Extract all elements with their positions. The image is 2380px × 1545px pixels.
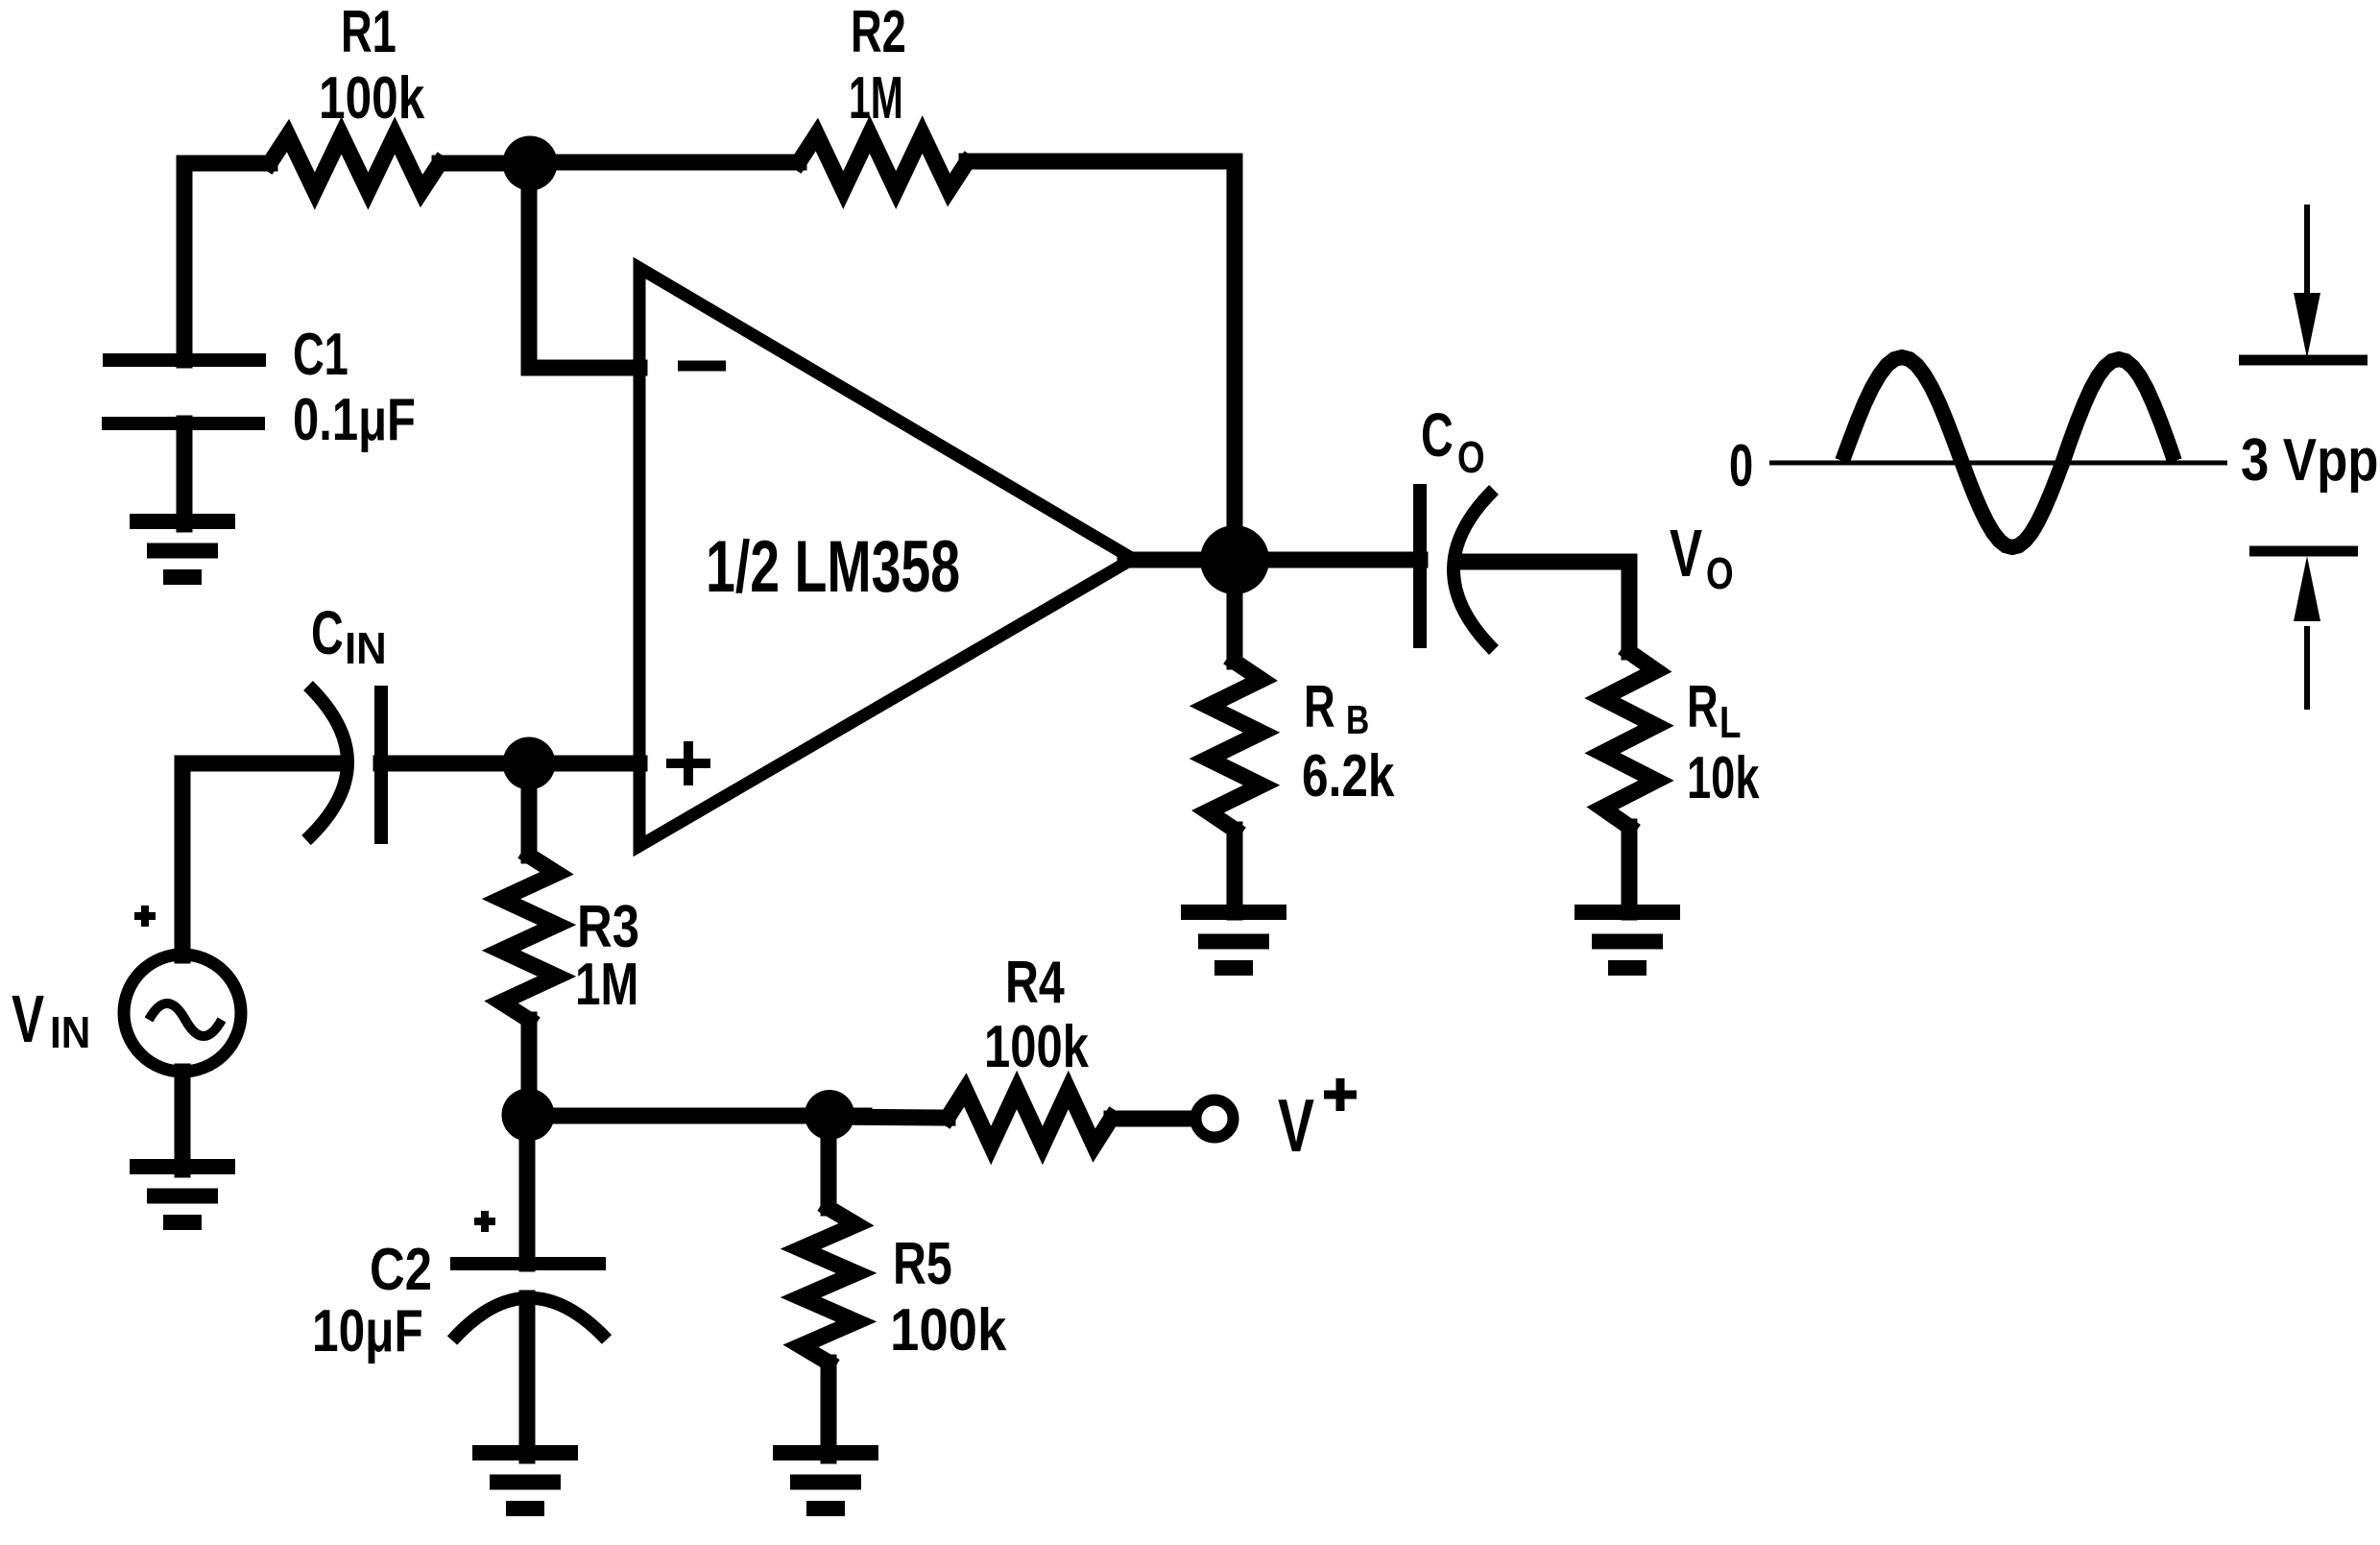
svg-text:V: V: [1278, 1084, 1314, 1168]
svg-text:0: 0: [1729, 432, 1753, 499]
svg-text:100k: 100k: [890, 1297, 1007, 1364]
svg-text:C2: C2: [370, 1237, 432, 1303]
svg-text:IN: IN: [50, 1008, 90, 1057]
svg-text:R1: R1: [341, 0, 397, 65]
svg-text:1M: 1M: [849, 65, 903, 133]
svg-text:L: L: [1719, 697, 1741, 747]
svg-text:R4: R4: [1005, 949, 1065, 1015]
svg-text:10k: 10k: [1687, 744, 1760, 811]
svg-text:R2: R2: [851, 0, 906, 65]
svg-text:R: R: [1687, 673, 1719, 740]
svg-text:C1: C1: [293, 321, 349, 388]
svg-text:3 Vpp: 3 Vpp: [2241, 427, 2378, 494]
svg-text:1/2 LM358: 1/2 LM358: [706, 527, 960, 609]
svg-text:100k: 100k: [319, 64, 425, 132]
svg-text:R: R: [1304, 673, 1335, 740]
svg-text:10μF: 10μF: [312, 1297, 423, 1364]
svg-text:O: O: [1706, 548, 1734, 598]
svg-text:V: V: [12, 981, 44, 1056]
svg-text:100k: 100k: [984, 1012, 1090, 1079]
svg-text:C: C: [311, 598, 344, 667]
svg-text:IN: IN: [345, 623, 387, 673]
svg-text:V: V: [1670, 516, 1702, 591]
svg-text:B: B: [1346, 699, 1369, 743]
svg-text:6.2k: 6.2k: [1302, 742, 1395, 809]
svg-text:1M: 1M: [575, 951, 638, 1017]
svg-text:R5: R5: [893, 1230, 952, 1296]
svg-text:O: O: [1457, 432, 1485, 482]
svg-text:0.1μF: 0.1μF: [293, 385, 416, 452]
svg-text:C: C: [1421, 400, 1454, 470]
